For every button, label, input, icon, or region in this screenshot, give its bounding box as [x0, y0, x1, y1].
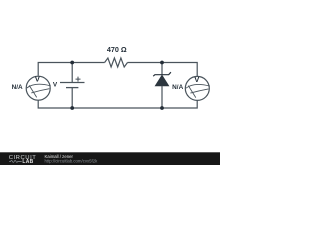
zener diode triangle [155, 75, 168, 86]
battery plus sign [76, 77, 81, 82]
voltmeter VM2 gauge upper arc [186, 84, 210, 88]
battery V1 long plate [60, 82, 85, 84]
svg-text:470 Ω: 470 Ω [107, 45, 127, 54]
svg-text:V: V [194, 75, 199, 84]
svg-text:V: V [35, 75, 40, 84]
svg-text:http://circuitlab.com/cvx5f2k: http://circuitlab.com/cvx5f2k [45, 159, 99, 164]
svg-text:V: V [53, 81, 58, 88]
battery V1 short plate [66, 87, 78, 89]
zener diode cathode bar [153, 72, 171, 76]
voltmeter VM1 gauge upper arc [27, 84, 51, 88]
node junction dot zener bottom [160, 106, 164, 110]
voltmeter VM1 circle [26, 76, 50, 100]
svg-text:LAB: LAB [22, 159, 33, 165]
voltmeter VM2 gauge lower arc [190, 89, 208, 93]
voltmeter VM1 needle [29, 85, 37, 97]
zener diode D1 lead top [161, 63, 163, 75]
CircuitLab logo waveform squiggle [9, 160, 22, 162]
node junction dot battery top [70, 61, 74, 65]
node junction dot battery bottom [70, 106, 74, 110]
node junction dot zener top [160, 61, 164, 65]
voltmeter VM2 needle [188, 86, 196, 98]
voltmeter VM1 gauge lower arc [31, 89, 49, 93]
svg-text:N/A: N/A [172, 84, 183, 91]
wire top-right segment [128, 63, 198, 77]
battery V1 lead bottom [71, 88, 73, 108]
battery V1 lead top [71, 63, 73, 83]
voltmeter VM2 circle [185, 76, 209, 100]
footer bar [0, 152, 220, 165]
wire bottom segment [38, 100, 197, 108]
zener diode lead bottom [161, 86, 163, 108]
wire top-left segment [38, 63, 104, 76]
svg-text:N/A: N/A [12, 84, 23, 91]
resistor R1 [105, 58, 128, 67]
